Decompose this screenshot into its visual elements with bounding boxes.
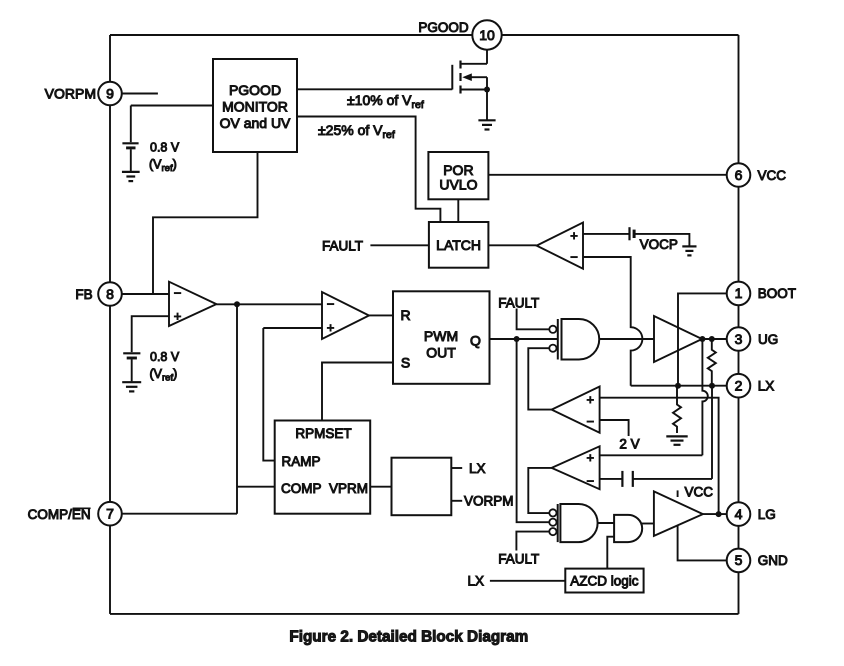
svg-text:5: 5 [735, 552, 743, 568]
svg-text:+: + [587, 450, 595, 465]
svg-text:PGOOD: PGOOD [229, 82, 281, 98]
svg-text:OUT: OUT [426, 344, 456, 360]
svg-text:9: 9 [106, 85, 114, 101]
svg-text:PGOOD: PGOOD [418, 20, 469, 35]
svg-text:−: − [327, 296, 335, 311]
svg-text:2: 2 [735, 378, 743, 394]
svg-text:VORPM: VORPM [45, 85, 96, 101]
svg-text:LG: LG [758, 507, 776, 522]
svg-text:−: − [587, 473, 595, 488]
svg-text:AZCD logic: AZCD logic [570, 574, 639, 589]
svg-text:8: 8 [106, 286, 114, 302]
svg-text:FB: FB [75, 287, 92, 302]
svg-text:VOCP: VOCP [640, 237, 678, 252]
svg-text:4: 4 [735, 506, 743, 522]
svg-text:S: S [401, 354, 410, 370]
svg-text:OV and UV: OV and UV [220, 115, 291, 131]
svg-text:COMP: COMP [281, 481, 322, 496]
svg-text:FAULT: FAULT [322, 238, 363, 253]
svg-text:VCC: VCC [758, 168, 787, 183]
svg-text:+: + [327, 320, 335, 335]
svg-text:VCC: VCC [685, 485, 714, 500]
svg-text:0.8 V: 0.8 V [150, 140, 180, 154]
svg-text:BOOT: BOOT [758, 286, 796, 301]
svg-text:UVLO: UVLO [439, 176, 477, 192]
svg-text:RPMSET: RPMSET [295, 426, 351, 441]
svg-text:+: + [587, 392, 595, 407]
svg-text:VORPM: VORPM [464, 494, 514, 509]
svg-text:7: 7 [106, 506, 114, 522]
svg-text:−: − [174, 286, 182, 301]
svg-text:0.8 V: 0.8 V [150, 350, 180, 364]
svg-text:+: + [174, 308, 182, 323]
svg-text:6: 6 [735, 167, 743, 183]
svg-text:LX: LX [758, 379, 775, 394]
svg-text:COMP/EN: COMP/EN [28, 507, 91, 522]
svg-text:Q: Q [470, 332, 481, 348]
svg-text:GND: GND [758, 553, 788, 568]
svg-text:VPRM: VPRM [329, 481, 368, 496]
svg-text:MONITOR: MONITOR [222, 98, 288, 114]
svg-text:10: 10 [479, 27, 495, 43]
svg-text:Figure 2. Detailed Block Diagr: Figure 2. Detailed Block Diagram [289, 628, 528, 645]
svg-text:−: − [570, 249, 578, 264]
svg-text:LX: LX [469, 461, 486, 476]
svg-text:+: + [570, 228, 578, 243]
svg-text:RAMP: RAMP [282, 454, 321, 469]
svg-text:3: 3 [735, 331, 743, 347]
svg-text:−: − [587, 414, 595, 429]
svg-text:FAULT: FAULT [498, 296, 539, 311]
svg-text:1: 1 [735, 285, 743, 301]
svg-text:FAULT: FAULT [498, 552, 539, 567]
svg-text:R: R [400, 307, 410, 323]
svg-text:PWM: PWM [424, 328, 458, 344]
svg-text:UG: UG [758, 332, 778, 347]
svg-text:LATCH: LATCH [436, 237, 481, 253]
svg-text:2 V: 2 V [619, 437, 639, 452]
svg-text:LX: LX [467, 574, 484, 589]
